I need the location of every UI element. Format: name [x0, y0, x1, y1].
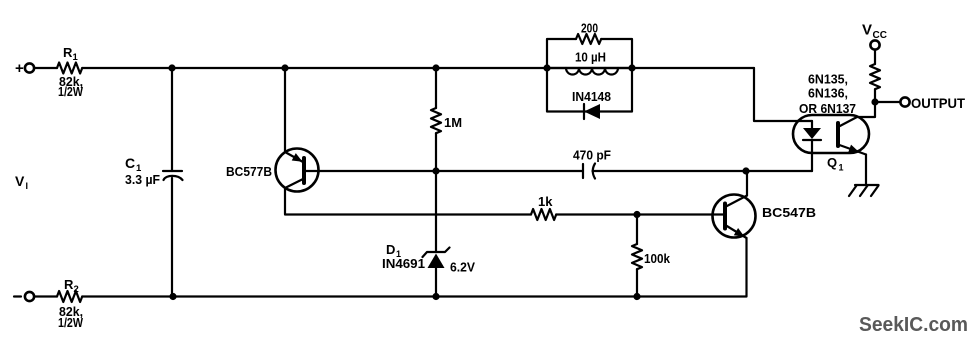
svg-text:1: 1	[839, 163, 844, 173]
svg-text:D: D	[386, 242, 395, 257]
svg-text:1/2W: 1/2W	[58, 84, 84, 99]
svg-text:+: +	[15, 60, 24, 77]
svg-text:6N136,: 6N136,	[808, 86, 848, 101]
svg-text:Q: Q	[827, 155, 837, 170]
svg-text:BC547B: BC547B	[762, 205, 816, 220]
svg-text:6N135,: 6N135,	[808, 72, 848, 87]
svg-text:200: 200	[581, 21, 598, 36]
svg-text:6.2V: 6.2V	[450, 260, 475, 275]
svg-text:BC577B: BC577B	[226, 164, 272, 179]
svg-text:V: V	[15, 173, 25, 189]
svg-text:R: R	[64, 277, 74, 292]
svg-text:IN4691: IN4691	[382, 256, 425, 271]
svg-text:OR 6N137: OR 6N137	[799, 101, 856, 116]
svg-text:R: R	[63, 45, 73, 60]
svg-text:C: C	[125, 155, 135, 171]
svg-text:V: V	[862, 22, 872, 39]
svg-text:I: I	[26, 181, 29, 191]
svg-text:100k: 100k	[644, 251, 671, 266]
svg-text:SeekIC.com: SeekIC.com	[859, 314, 968, 336]
svg-text:3.3 µF: 3.3 µF	[125, 172, 160, 187]
svg-text:10 µH: 10 µH	[575, 50, 606, 65]
svg-text:1M: 1M	[444, 115, 462, 130]
svg-text:1/2W: 1/2W	[58, 315, 84, 330]
svg-text:1: 1	[73, 52, 79, 63]
svg-text:2: 2	[74, 284, 79, 295]
svg-text:OUTPUT: OUTPUT	[911, 95, 965, 111]
svg-text:CC: CC	[873, 30, 887, 41]
svg-text:470 pF: 470 pF	[573, 148, 611, 163]
svg-text:IN4148: IN4148	[572, 89, 611, 104]
svg-text:1k: 1k	[538, 194, 553, 209]
